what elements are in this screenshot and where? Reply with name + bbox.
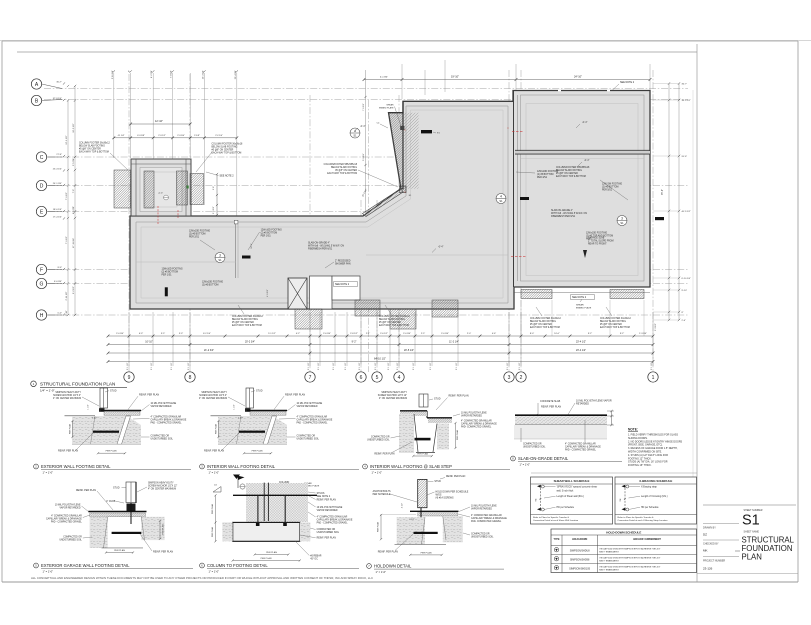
svg-text:HOLD-DOWN SCHEDULE: HOLD-DOWN SCHEDULE [606,530,641,534]
svg-text:Length of Shear wall (ft/in.): Length of Shear wall (ft/in.) [557,495,585,498]
svg-text:HD per Schedule: HD per Schedule [641,506,659,509]
svg-text:6'-2 1/2": 6'-2 1/2" [73,286,75,294]
svg-text:#5 @8" ON CENTER: #5 @8" ON CENTER [530,324,552,326]
svg-text:HD per Schedule: HD per Schedule [557,506,575,509]
svg-text:8'-0": 8'-0" [58,267,63,269]
svg-text:2'-1 1/2": 2'-1 1/2" [171,362,173,370]
svg-text:3: 3 [219,254,221,258]
svg-text:7'-1 1/2": 7'-1 1/2" [363,103,365,111]
svg-text:SIMPSON/SHD98: SIMPSON/SHD98 [570,558,590,561]
svg-text:VAPOR RETARDED: VAPOR RETARDED [317,509,338,512]
svg-text:2'-0": 2'-0" [682,320,687,322]
svg-text:10'-3 1/2": 10'-3 1/2" [73,123,75,132]
svg-text:4'-2 3/4": 4'-2 3/4" [151,70,153,78]
svg-text:1'-1 1/2": 1'-1 1/2" [213,206,215,214]
svg-text:FOOTING 16" THICK.: FOOTING 16" THICK. [628,464,652,467]
svg-text:1" = 1'-0": 1" = 1'-0" [376,570,387,574]
svg-text:2'-1 1/2": 2'-1 1/2" [413,362,415,370]
svg-text:PAD - COMPACTED GRAVEL: PAD - COMPACTED GRAVEL [151,422,183,425]
svg-text:COLUMN FOOTER 34x34x12: COLUMN FOOTER 34x34x12 [600,318,631,320]
svg-text:SLAB-ON-GRADE 4": SLAB-ON-GRADE 4" [551,209,573,212]
svg-text:36'-7": 36'-7" [682,84,688,86]
svg-text:12'-1 1/2": 12'-1 1/2" [66,135,68,144]
svg-text:PAD - COMPACTED GRAVEL: PAD - COMPACTED GRAVEL [297,422,329,425]
svg-text:(2) #5 BOTTOM: (2) #5 BOTTOM [189,234,206,236]
svg-text:2'-1 1/2": 2'-1 1/2" [375,362,377,370]
svg-text:VAPOR RETARDED: VAPOR RETARDED [151,405,172,408]
svg-text:REINF. PER PLAN: REINF. PER PLAN [58,450,78,453]
svg-text:4" COMPACTED GRANULAR: 4" COMPACTED GRANULAR [297,416,328,419]
svg-text:7'-1 1/2": 7'-1 1/2" [66,192,68,200]
svg-text:INTERIOR WALL FOOTING @ SLAB S: INTERIOR WALL FOOTING @ SLAB STEP [370,464,452,469]
svg-text:EXTERIOR WALL FOOTING DETAIL: EXTERIOR WALL FOOTING DETAIL [41,464,111,469]
svg-text:W/SS: W/SS [436,494,442,496]
svg-text:STUD: STUD [110,390,117,393]
svg-text:REINF. PER PLAN: REINF. PER PLAN [153,551,173,554]
svg-text:2'-0": 2'-0" [467,333,472,335]
svg-text:4" COMPACTED GRANULAR: 4" COMPACTED GRANULAR [51,515,82,518]
svg-text:RETARDED: RETARDED [576,403,589,406]
svg-text:G: G [40,281,44,287]
svg-text:EACH WAY TOP & BOTTOM: EACH WAY TOP & BOTTOM [212,152,242,155]
svg-text:VAPOR RETARDED: VAPOR RETARDED [60,507,81,510]
svg-text:40'-9 1/2": 40'-9 1/2" [682,211,691,213]
svg-text:PAD - COMPACTED GRAVEL: PAD - COMPACTED GRAVEL [51,521,83,524]
svg-text:GARAGE SLAB: GARAGE SLAB [588,237,605,240]
svg-text:SIMPSON/SHDU8: SIMPSON/SHDU8 [570,549,590,552]
svg-text:(4) #14 SCREWS: (4) #14 SCREWS [436,497,454,499]
svg-text:COMPACTED OR: COMPACTED OR [471,533,490,536]
svg-text:2 1/2": 2 1/2" [92,418,97,420]
svg-text:PER PLAN: PER PLAN [417,453,428,456]
svg-text:SEE NOTE 2: SEE NOTE 2 [220,175,235,178]
svg-text:F: F [40,267,43,273]
svg-text:DRAWN BY: DRAWN BY [703,526,716,529]
svg-text:6'-3": 6'-3" [139,333,144,335]
svg-text:8: 8 [189,375,192,381]
svg-text:2'-6 1/2": 2'-6 1/2" [380,333,388,335]
svg-text:4" COMPACTED GRANULAR: 4" COMPACTED GRANULAR [317,516,348,519]
svg-text:2 1/2": 2 1/2" [238,418,243,420]
svg-text:PAD- COMPACTED GRAVEL: PAD- COMPACTED GRAVEL [471,520,502,523]
svg-text:1" = 1'-0": 1" = 1'-0" [372,470,383,474]
svg-text:36'-9 1/2": 36'-9 1/2" [682,100,691,102]
svg-text:4" ON CENTER MAXIMUM: 4" ON CENTER MAXIMUM [379,397,407,400]
svg-text:S1: S1 [499,199,503,203]
svg-text:23-126: 23-126 [703,566,713,570]
svg-text:STUD: STUD [434,480,441,483]
svg-text:3'-5": 3'-5" [161,333,166,335]
svg-text:SHEAR WALL SCHEDULE: SHEAR WALL SCHEDULE [554,479,590,483]
svg-text:CONCRETE SLAB: CONCRETE SLAB [540,400,561,403]
svg-text:PER PLAN: PER PLAN [261,557,272,560]
svg-text:2'-1 1/2": 2'-1 1/2" [333,362,335,370]
svg-text:11'-2 1/4": 11'-2 1/4" [449,341,459,344]
svg-text:2'-5": 2'-5" [421,333,426,335]
svg-text:1/4" = 1'-0": 1/4" = 1'-0" [40,389,55,393]
svg-text:#5 REBAR: #5 REBAR [310,555,321,558]
svg-text:12Wx10D FOOTING: 12Wx10D FOOTING [261,230,282,232]
svg-text:Connection Detail at each X-Br: Connection Detail at each X-Bracing Stra… [618,519,669,522]
svg-text:PAD - COMPACTED GRAVEL: PAD - COMPACTED GRAVEL [565,449,597,452]
svg-text:EACH WAY TOP & BOTTOM: EACH WAY TOP & BOTTOM [600,326,630,329]
svg-text:PER 4/S1: PER 4/S1 [537,177,548,179]
svg-text:PER PLAN: PER PLAN [114,549,125,552]
svg-text:UNDISTURBED SOIL: UNDISTURBED SOIL [367,440,390,442]
svg-text:2'-1 1/2": 2'-1 1/2" [507,362,509,370]
svg-text:6'-3 3/8": 6'-3 3/8" [137,135,145,137]
svg-text:NOTE:: NOTE: [628,428,638,432]
svg-text:16'-0": 16'-0" [554,333,560,335]
svg-text:2'-5 3/4": 2'-5 3/4" [73,158,75,166]
svg-text:SEE NOTE 2: SEE NOTE 2 [620,81,635,84]
svg-text:WITH 6x6 - W1.5xW1.5 W.W.F. ON: WITH 6x6 - W1.5xW1.5 W.W.F. ON [308,246,344,248]
svg-text:PER 2/S1: PER 2/S1 [189,237,200,239]
svg-text:VAPOR RETARDED: VAPOR RETARDED [297,405,318,408]
svg-text:S1: S1 [353,134,357,138]
svg-text:7'-6": 7'-6" [73,189,75,194]
svg-text:#5 @8" ON CENTER: #5 @8" ON CENTER [232,322,254,324]
svg-text:1" = 1'-0": 1" = 1'-0" [43,470,54,474]
svg-text:SIMPSON HEAVY-DUTY: SIMPSON HEAVY-DUTY [381,391,407,394]
svg-text:BELOW SLAB FOOTING: BELOW SLAB FOOTING [331,166,357,169]
svg-text:PER PLAN: PER PLAN [252,450,263,453]
svg-text:STUD: STUD [434,398,441,401]
svg-text:2'-11 1/2": 2'-11 1/2" [66,291,68,300]
svg-text:REINF. PER PLAN: REINF. PER PLAN [204,450,224,453]
svg-text:4" ON CENTER MAXIMUM: 4" ON CENTER MAXIMUM [199,397,227,400]
svg-text:24'-10": 24'-10" [574,75,582,79]
svg-text:(2) #5 BOTTOM: (2) #5 BOTTOM [162,272,179,274]
svg-text:UNDISTURBED SOIL: UNDISTURBED SOIL [297,439,320,441]
svg-text:23'-4 1/2": 23'-4 1/2" [576,349,586,352]
svg-text:S1: S1 [218,258,222,262]
svg-text:2'-3 1/2": 2'-3 1/2" [655,323,657,331]
svg-text:REINF. PER PLAN: REINF. PER PLAN [449,395,469,398]
svg-text:STUDS: STUDS [317,493,325,495]
svg-text:PER 3/S1: PER 3/S1 [261,236,272,238]
svg-text:2 1/2": 2 1/2" [409,519,414,521]
svg-text:BELOW SLAB FOOTING: BELOW SLAB FOOTING [556,169,582,172]
svg-text:REINF. PER PLAN: REINF. PER PLAN [317,536,337,539]
svg-text:27'-6": 27'-6" [56,154,62,156]
svg-text:HOLD DOWN PER SCHEDULE: HOLD DOWN PER SCHEDULE [436,491,469,493]
svg-text:#5 @8" ON CENTER: #5 @8" ON CENTER [335,170,357,172]
svg-text:SW: SW [620,498,622,501]
svg-text:12'-2": 12'-2" [251,243,253,249]
svg-text:9'-2": 9'-2" [588,333,593,335]
svg-text:9'-2": 9'-2" [352,341,357,344]
svg-text:REINF. PER PLAN: REINF. PER PLAN [317,498,337,501]
svg-text:DZ: DZ [703,532,707,536]
svg-text:23'-4 1/2": 23'-4 1/2" [576,341,586,344]
svg-text:36'-7": 36'-7" [56,82,62,84]
svg-text:PER PLAN: PER PLAN [211,526,214,537]
svg-text:(2) #5 BOTTOM: (2) #5 BOTTOM [202,285,219,287]
svg-text:6'-0 3/4": 6'-0 3/4" [54,281,62,283]
svg-text:SCREW ANCHOR 1/2"X 12": SCREW ANCHOR 1/2"X 12" [148,485,177,488]
svg-text:1 1/2": 1 1/2" [234,404,236,409]
svg-text:-0'-4": -0'-4" [584,160,590,162]
svg-text:S1: S1 [620,221,624,225]
svg-text:REINF. PER PLAN: REINF. PER PLAN [378,550,398,553]
svg-text:17'-11 1/4": 17'-11 1/4" [73,238,75,248]
svg-text:4" ON CENTER MAXIMUM: 4" ON CENTER MAXIMUM [53,397,81,400]
svg-text:10'-10": 10'-10" [145,341,153,344]
svg-text:2'-0 3/4": 2'-0 3/4" [403,333,411,335]
svg-text:2" TOTAL SLOPE FROM: 2" TOTAL SLOPE FROM [588,240,614,243]
svg-text:12Wx10D FOOTING: 12Wx10D FOOTING [202,282,223,284]
svg-text:EACH WAY TOP & BOTTOM: EACH WAY TOP & BOTTOM [556,175,586,178]
svg-text:2: 2 [520,375,523,381]
svg-text:PER PLAN: PER PLAN [211,503,214,514]
svg-text:2'-1 1/2": 2'-1 1/2" [127,362,129,370]
svg-text:UNDISTURBED SOIL: UNDISTURBED SOIL [59,540,82,542]
svg-text:FIBERMESH PER 6/S1: FIBERMESH PER 6/S1 [308,249,333,251]
svg-text:MK: MK [703,548,708,552]
svg-text:SCREW ANCHOR 1/2"X 12": SCREW ANCHOR 1/2"X 12" [378,394,407,397]
svg-text:SHEET NAME: SHEET NAME [744,531,760,534]
svg-text:10 MIL POLYETHYLENE: 10 MIL POLYETHYLENE [317,507,343,509]
svg-text:BELOW SLAB FOOTING: BELOW SLAB FOOTING [530,320,556,323]
svg-text:UNDISTURBED SOIL: UNDISTURBED SOIL [523,447,546,449]
svg-text:PLAN: PLAN [742,553,762,562]
svg-text:COLUMN FOOTER 34x34x12: COLUMN FOOTER 34x34x12 [379,316,410,318]
svg-text:WITH 6x6 - W1.5xW1.5 W.W.F. ON: WITH 6x6 - W1.5xW1.5 W.W.F. ON [551,213,587,215]
svg-text:HOLD-DOWN: HOLD-DOWN [572,538,587,541]
svg-text:CAPILLARY BREAK & DRAINAGE: CAPILLARY BREAK & DRAINAGE [565,446,601,449]
svg-text:7'-1 1/2": 7'-1 1/2" [66,236,68,244]
svg-text:1'-3 3/4": 1'-3 3/4" [639,333,647,335]
svg-text:10 MIL POLYETHYLENE: 10 MIL POLYETHYLENE [297,403,323,405]
svg-text:18'-0 1/4": 18'-0 1/4" [53,209,62,211]
svg-text:4'-1 1/2": 4'-1 1/2" [267,289,269,297]
svg-text:COLUMN/FOOTER 585x585x18: COLUMN/FOOTER 585x585x18 [324,164,358,166]
svg-text:PER PLAN: PER PLAN [215,423,218,434]
svg-text:4'-1 3/8": 4'-1 3/8" [73,206,75,214]
svg-text:CAPILLARY BREAK & DRAINAGE: CAPILLARY BREAK & DRAINAGE [297,419,333,422]
svg-text:12W SW FOOTING: 12W SW FOOTING [602,184,622,186]
svg-text:PER PLAN: PER PLAN [421,552,432,555]
svg-text:CAPILLARY BREAK & DRAINAGE: CAPILLARY BREAK & DRAINAGE [461,423,497,426]
svg-text:Refer to Plans for Specific Tr: Refer to Plans for Specific Transfer & [618,516,655,519]
svg-text:7'-8 1/4": 7'-8 1/4" [171,70,173,78]
svg-text:CHECKED BY: CHECKED BY [703,543,719,546]
svg-text:EACH WAY TOP & BOTTOM: EACH WAY TOP & BOTTOM [327,172,357,175]
svg-text:PER PLAN: PER PLAN [377,521,380,532]
svg-text:COLUMN/FOOTER 585x585x18: COLUMN/FOOTER 585x585x18 [556,167,590,169]
svg-text:SIMPSON HEAVY-DUTY: SIMPSON HEAVY-DUTY [55,391,81,394]
svg-text:8'-0": 8'-0" [530,333,535,335]
svg-text:FIBERMESH PER 6/S1: FIBERMESH PER 6/S1 [551,216,576,218]
svg-text:2'-3 3/4": 2'-3 3/4" [177,135,185,137]
svg-text:7: 7 [309,375,312,381]
svg-text:2'-1 1/2": 2'-1 1/2" [430,362,432,370]
svg-text:TYPE: TYPE [554,539,560,541]
svg-text:-0'-4": -0'-4" [158,193,163,195]
svg-text:COLUMN FOOTER 36x36x12: COLUMN FOOTER 36x36x12 [79,143,110,145]
svg-text:2'-1 1/2": 2'-1 1/2" [345,362,347,370]
svg-text:#5 @8" ON CENTER: #5 @8" ON CENTER [79,149,101,151]
svg-text:20'-4 3/4": 20'-4 3/4" [235,70,237,79]
svg-text:3: 3 [621,217,623,221]
svg-text:#5 @8" ON CENTER: #5 @8" ON CENTER [556,173,578,175]
svg-text:0'-0": 0'-0" [58,313,63,315]
svg-text:6'-10 1/4": 6'-10 1/4" [682,278,691,280]
svg-text:2'-0 3/4": 2'-0 3/4" [441,333,449,335]
svg-text:CAPILLARY BREAK & DRAINAGE: CAPILLARY BREAK & DRAINAGE [317,519,353,522]
svg-text:PROJECT NUMBER: PROJECT NUMBER [703,560,725,563]
svg-text:MIN 9" EMBEDMENT: MIN 9" EMBEDMENT [599,561,619,563]
svg-text:12Wx10D FOOTING: 12Wx10D FOOTING [586,233,607,235]
svg-text:ANCHOR / EMBEDMENT: ANCHOR / EMBEDMENT [633,538,661,541]
svg-text:4" COMPACTED GRANULAR: 4" COMPACTED GRANULAR [461,420,492,423]
svg-text:COMPACTED OR: COMPACTED OR [317,528,336,531]
svg-text:2'-1 1/2": 2'-1 1/2" [397,362,399,370]
svg-text:2'-1 1/2": 2'-1 1/2" [359,362,361,370]
svg-text:SEE NOTE 2: SEE NOTE 2 [335,283,350,286]
svg-text:PAD - COMPACTED GRAVEL: PAD - COMPACTED GRAVEL [317,522,349,525]
svg-text:(2) #5 BOTTOM: (2) #5 BOTTOM [602,187,619,189]
svg-text:2'-1 1/2": 2'-1 1/2" [318,362,320,370]
svg-text:X-BRACING SCHEDULE: X-BRACING SCHEDULE [639,479,672,483]
svg-text:1" = 1'-0": 1" = 1'-0" [520,462,531,466]
svg-text:SEE NOTE 4: SEE NOTE 4 [317,496,331,498]
svg-text:VAPOR RETARDED: VAPOR RETARDED [461,415,482,418]
svg-text:Refer to Plans for Specific Tr: Refer to Plans for Specific Transfer & [533,516,570,519]
svg-text:ALL CONCEPTUAL AND ENGINEERED: ALL CONCEPTUAL AND ENGINEERED DESIGN WIT… [31,576,373,580]
svg-text:4: 4 [398,375,401,381]
svg-text:4" COMPACTED GRANULAR: 4" COMPACTED GRANULAR [565,443,596,446]
svg-text:COLUMN TO FOOTING DETAIL: COLUMN TO FOOTING DETAIL [207,563,268,568]
svg-text:REINF. PER PLAN: REINF. PER PLAN [446,475,466,478]
svg-text:1" = 1'-0": 1" = 1'-0" [209,569,220,573]
svg-text:BELOW SLAB FOOTING: BELOW SLAB FOOTING [600,320,626,323]
svg-text:EXTERIOR GARAGE WALL FOOTING D: EXTERIOR GARAGE WALL FOOTING DETAIL [41,563,130,568]
svg-text:7/8 DIA F1554 GR36 WITH SIMPSO: 7/8 DIA F1554 GR36 WITH SIMPSON EPOXY AD… [599,547,660,550]
svg-text:2'-1 1/2": 2'-1 1/2" [388,362,390,370]
svg-text:7/8 DIA F1554 GR36 WITH SIMPSO: 7/8 DIA F1554 GR36 WITH SIMPSON EPOXY AD… [599,556,660,559]
svg-text:SCREW ANCHOR 1/2"X 4": SCREW ANCHOR 1/2"X 4" [53,394,81,397]
svg-text:EMBED PLATE: EMBED PLATE [379,106,394,109]
svg-text:9'-2": 9'-2" [620,333,625,335]
svg-text:2'-1 1/2": 2'-1 1/2" [151,362,153,370]
svg-text:COMPACTED OR: COMPACTED OR [63,536,82,539]
svg-text:12Wx10D FOOTING: 12Wx10D FOOTING [537,171,558,173]
svg-text:10'-3 1/4": 10'-3 1/4" [202,70,204,79]
svg-text:9: 9 [128,375,131,381]
svg-text:D: D [40,183,44,189]
svg-text:SHOWER PAN: SHOWER PAN [335,263,351,266]
svg-text:2'-6 3/4": 2'-6 3/4" [323,333,331,335]
svg-text:BELOW SLAB FOOTING: BELOW SLAB FOOTING [232,318,258,321]
svg-text:C: C [40,155,44,161]
svg-text:12Wx10D FOOTING: 12Wx10D FOOTING [162,269,183,271]
svg-text:PAD- COMPACTED GRAVEL: PAD- COMPACTED GRAVEL [461,426,492,429]
svg-text:BELOW SLAB FOOTING: BELOW SLAB FOOTING [212,146,238,149]
svg-text:BELOW SLAB FOOTING: BELOW SLAB FOOTING [79,145,105,148]
svg-text:4 1/2": 4 1/2" [402,503,404,508]
svg-text:5'-1 1/2": 5'-1 1/2" [268,333,276,335]
svg-text:2'-1 1/2": 2'-1 1/2" [456,362,458,370]
svg-text:6: 6 [360,375,363,381]
svg-text:S1: S1 [742,513,760,529]
svg-text:SHEAR: SHEAR [576,304,584,307]
svg-text:4'-1 3/4": 4'-1 3/4" [380,77,388,79]
svg-text:12'-10": 12'-10" [155,119,163,123]
svg-text:10 MIL POLYETHYLENE: 10 MIL POLYETHYLENE [55,505,81,507]
svg-text:5: 5 [376,375,379,381]
svg-text:CAPILLARY BREAK & DRAINAGE: CAPILLARY BREAK & DRAINAGE [471,517,507,520]
svg-text:2'-1": 2'-1" [366,333,371,335]
svg-text:SLAB-ON-GRADE DETAIL: SLAB-ON-GRADE DETAIL [518,456,569,461]
svg-text:Length of X-bracing (ft/in.): Length of X-bracing (ft/in.) [641,495,668,498]
svg-text:2" RECESSED: 2" RECESSED [335,261,351,263]
svg-text:CAPILLARY BREAK & DRAINAGE: CAPILLARY BREAK & DRAINAGE [46,518,82,521]
svg-text:4" CURB: 4" CURB [106,501,116,503]
svg-text:45° OC: 45° OC [310,559,318,561]
svg-text:(2) #5 BOTTOM: (2) #5 BOTTOM [261,233,278,235]
svg-text:35'-6": 35'-6" [662,189,664,195]
svg-text:UNDISTURBED SOIL: UNDISTURBED SOIL [471,537,494,539]
svg-text:SEE NOTE 2: SEE NOTE 2 [572,296,587,299]
svg-text:4'-2": 4'-2" [296,333,301,335]
svg-text:24'-1 3/4": 24'-1 3/4" [53,183,62,185]
svg-text:#5 @8" ON CENTER: #5 @8" ON CENTER [212,150,234,152]
svg-text:CAPILLARY BREAK & DRAINAGE: CAPILLARY BREAK & DRAINAGE [151,419,187,422]
svg-text:2'-8 1/2": 2'-8 1/2" [350,333,358,335]
svg-text:19'-10": 19'-10" [451,75,459,79]
svg-text:12Wx10D FOOTING: 12Wx10D FOOTING [189,231,210,233]
svg-text:MIN 9" EMBEDMENT: MIN 9" EMBEDMENT [599,552,619,554]
svg-text:SHEAR: SHEAR [386,104,394,107]
svg-text:COLUMN FOOTER 36x36x18: COLUMN FOOTER 36x36x18 [212,144,243,146]
svg-text:SIMPSON/SHD10S: SIMPSON/SHD10S [569,567,590,570]
svg-text:'SPRAX ROCK' sprayed concrete: 'SPRAX ROCK' sprayed concrete shear [557,486,598,489]
svg-text:Connection Detail at each Shea: Connection Detail at each Shear Wall Loc… [533,519,579,522]
svg-text:VAPOR RETARDED: VAPOR RETARDED [471,508,492,511]
svg-text:20'-6": 20'-6" [682,156,688,158]
svg-text:UNDISTURBED SOIL: UNDISTURBED SOIL [151,439,174,441]
svg-text:STUD: STUD [113,487,120,490]
svg-text:8": 8" [682,312,684,314]
svg-text:3'-3": 3'-3" [179,333,184,335]
svg-text:1 1/2": 1 1/2" [88,404,90,409]
svg-text:20'-5 1/4": 20'-5 1/4" [404,349,414,352]
svg-text:EACH WAY TOP & BOTTOM: EACH WAY TOP & BOTTOM [379,324,409,327]
svg-text:COMPACTED OR: COMPACTED OR [523,443,542,446]
svg-text:EMBED PLATE: EMBED PLATE [576,306,592,309]
svg-text:REINF. PER PLAN: REINF. PER PLAN [139,393,159,396]
svg-text:SCREW ANCHOR 1/2"X 4": SCREW ANCHOR 1/2"X 4" [199,394,227,397]
svg-text:2'-6": 2'-6" [213,186,215,190]
svg-text:4'-6": 4'-6" [492,333,497,335]
svg-text:REINF. PER PLAN: REINF. PER PLAN [285,393,305,396]
svg-text:SIMPSON HEAVY-DUTY: SIMPSON HEAVY-DUTY [201,391,227,394]
svg-text:2'-0 3/4": 2'-0 3/4" [116,333,124,335]
svg-text:PER PLAN: PER PLAN [456,429,459,440]
svg-text:REINF. PER PLAN: REINF. PER PLAN [541,406,561,409]
svg-text:SIMPSON HEAVY-DUTY: SIMPSON HEAVY-DUTY [148,482,174,485]
svg-text:10 MIL POLYETHYLENE: 10 MIL POLYETHYLENE [461,413,487,415]
svg-text:-0'-4": -0'-4" [582,122,588,124]
svg-text:PER 5/S1: PER 5/S1 [602,190,613,192]
svg-text:21'-2 3/4": 21'-2 3/4" [204,349,214,352]
svg-text:INTERIOR WALL FOOTING DETAIL: INTERIOR WALL FOOTING DETAIL [207,464,276,469]
svg-text:-0'-4": -0'-4" [438,247,444,249]
svg-text:17'-4 1/4": 17'-4 1/4" [53,217,62,219]
svg-text:PER SCHEDULE: PER SCHEDULE [373,494,391,496]
